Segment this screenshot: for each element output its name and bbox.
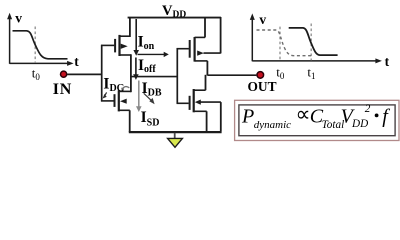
svg-text:2: 2	[365, 103, 371, 115]
input falling waveform	[13, 31, 68, 59]
dashed t1 marker line	[310, 24, 312, 61]
transistor P1 (PMOS stage 1)	[101, 17, 131, 56]
gray dashed early waveform	[257, 30, 312, 56]
node IN	[53, 71, 72, 98]
I_DG gray curl arrow	[122, 87, 130, 90]
transistor P2 (PMOS stage 2)	[177, 17, 221, 75]
current arrow I_off	[133, 58, 139, 80]
bottom ground rail	[129, 131, 222, 133]
svg-text:DD: DD	[351, 118, 368, 130]
svg-text:OUT: OUT	[248, 79, 277, 94]
svg-text:Ion: Ion	[138, 33, 155, 52]
gray current arrow I_DB	[136, 81, 142, 113]
svg-text:P: P	[241, 106, 254, 128]
svg-text:IDB: IDB	[142, 80, 162, 99]
wire IN to gate riser	[67, 73, 103, 75]
svg-text:dynamic: dynamic	[254, 119, 291, 131]
svg-text:Ioff: Ioff	[138, 57, 156, 75]
svg-text:v: v	[15, 10, 22, 25]
left input waveform graph	[7, 10, 79, 82]
gate riser stage 1	[101, 45, 103, 102]
wire stage2 drain to OUT	[207, 74, 256, 76]
dashed t0 marker line	[34, 27, 36, 64]
svg-text:t0: t0	[32, 65, 41, 82]
output column stage 1	[130, 54, 132, 92]
v axis	[251, 17, 253, 61]
dashed t0 marker line	[279, 27, 281, 61]
svg-text:∝: ∝	[296, 102, 311, 126]
right output waveform graph	[250, 12, 390, 81]
svg-text:ISD: ISD	[141, 109, 160, 128]
gate riser stage 2	[176, 48, 178, 104]
ground	[168, 133, 183, 148]
annotation current arrow to next stage	[138, 52, 169, 57]
I_DG small arrow to gate	[103, 92, 107, 98]
svg-text:VDD: VDD	[162, 3, 186, 20]
svg-text:t0: t0	[276, 65, 285, 82]
v axis	[9, 17, 11, 64]
svg-text:t: t	[385, 54, 390, 69]
transistor N1 (NMOS stage 1)	[101, 90, 131, 132]
solid delayed waveform	[289, 28, 338, 55]
V_DD rail	[128, 17, 221, 19]
formula box outer frame	[235, 100, 399, 140]
t axis	[10, 62, 70, 64]
formula P_dynamic = C_Total V_DD^2 f	[241, 102, 390, 131]
current arrow I_on	[133, 19, 139, 56]
svg-text:t1: t1	[307, 65, 315, 82]
svg-text:v: v	[259, 12, 266, 27]
t axis	[252, 60, 377, 62]
svg-text:t: t	[74, 54, 79, 69]
diagonal annotation arrow to drain-body junction	[144, 93, 155, 104]
formula box inner frame	[239, 105, 395, 136]
svg-text:IDG: IDG	[103, 75, 124, 94]
node OUT	[248, 72, 277, 95]
transistor N2 (NMOS stage 2)	[177, 75, 221, 131]
stage1 output to stage2 gate wire	[131, 76, 177, 78]
svg-text:IN: IN	[53, 81, 72, 98]
